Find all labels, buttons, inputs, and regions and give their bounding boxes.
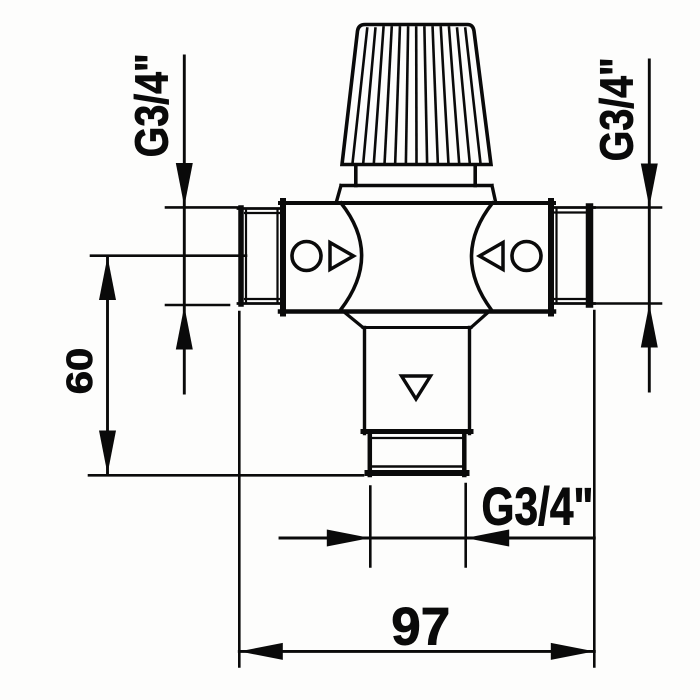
arrow up (60) xyxy=(99,257,116,301)
dimension: 97 xyxy=(239,311,594,667)
arrow down (60) xyxy=(99,431,116,475)
symbol: outlet triangle (points down) xyxy=(402,376,431,399)
arrow up (left G3/4) xyxy=(176,306,193,350)
svg-text:G3/4": G3/4" xyxy=(126,53,178,157)
symbol: left circle xyxy=(292,242,321,271)
dimension: 60 xyxy=(89,256,363,476)
symbol: right triangle (points left) xyxy=(480,243,504,270)
symbol: left triangle (points right) xyxy=(330,243,354,270)
dimension: right G3/4 xyxy=(595,60,662,391)
arrow right (bottom G3/4) xyxy=(327,530,371,547)
valve body xyxy=(280,201,554,205)
dimension: bottom G3/4 xyxy=(280,484,594,567)
bottom threaded outlet xyxy=(368,434,467,475)
dimension: left G3/4 xyxy=(166,56,238,393)
knob ribs xyxy=(353,28,481,163)
svg-text:G3/4": G3/4" xyxy=(591,57,643,161)
knob outline xyxy=(342,25,491,165)
arrow up (right G3/4) xyxy=(641,304,658,348)
arrow left (97) xyxy=(239,643,282,660)
ext line top (pipe top) xyxy=(166,206,238,209)
left threaded pipe xyxy=(238,208,281,304)
lower trapezoid below body xyxy=(344,312,490,328)
arrow down (right G3/4) xyxy=(641,164,658,208)
knob base flange xyxy=(337,186,496,202)
dim line xyxy=(183,56,186,393)
arrow right (97) xyxy=(551,643,595,660)
svg-text:97: 97 xyxy=(391,597,450,656)
svg-text:60: 60 xyxy=(59,348,100,395)
outlet rectangle xyxy=(363,328,366,434)
arrow down (left G3/4) xyxy=(176,163,193,207)
knob neck xyxy=(354,166,358,186)
ext line bottom (pipe bottom) xyxy=(166,304,229,307)
body internal curve left xyxy=(341,203,362,310)
body internal curve right xyxy=(471,203,492,310)
right threaded pipe xyxy=(553,207,595,304)
arrow left (bottom G3/4) xyxy=(466,530,510,547)
symbol: right circle xyxy=(512,242,541,271)
svg-text:G3/4": G3/4" xyxy=(482,478,594,537)
